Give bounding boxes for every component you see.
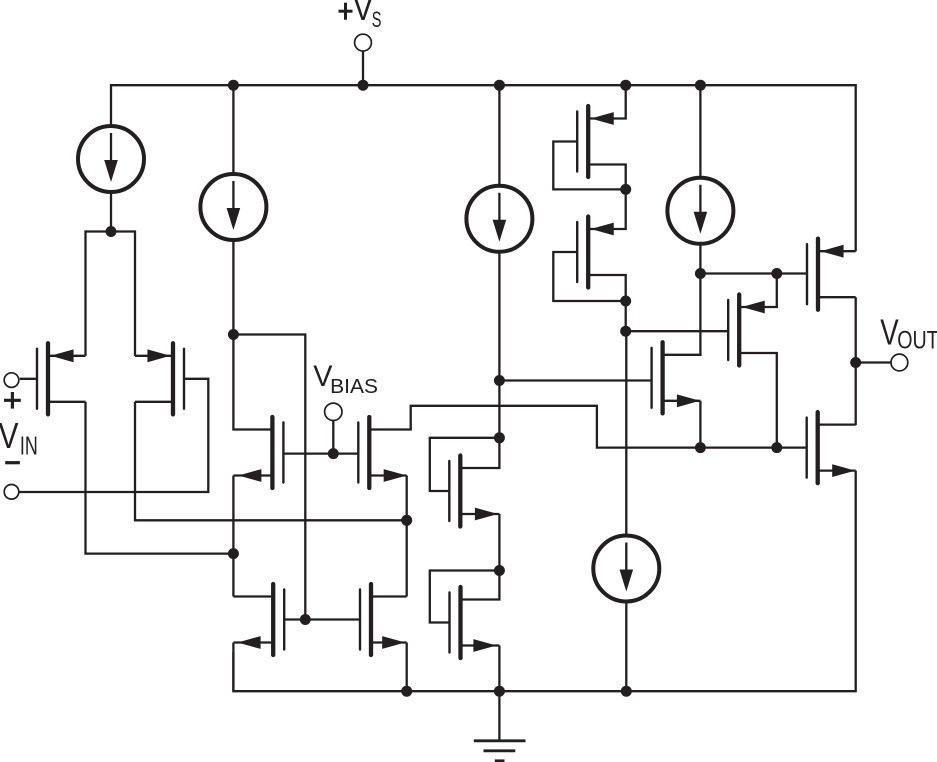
wire: node G to M13 gate — [499, 379, 651, 381]
node: M6/M7 junction — [494, 565, 505, 576]
wire: I3 to node G and M6 — [498, 252, 500, 438]
wire: M12 source lead — [739, 274, 777, 308]
wire: M6 drain lead — [460, 438, 499, 468]
svg-text:V: V — [0, 415, 19, 456]
node C: M2/M4/M5b junction — [401, 515, 412, 526]
node E: M9 drain junction — [620, 296, 631, 307]
wire: M5a source lead — [233, 641, 273, 643]
wire: M11 drain lead — [818, 296, 856, 298]
node: ground rail junction I5 — [621, 686, 632, 697]
current source I5 — [593, 536, 659, 602]
transistor M7 (diode NMOS lower) — [450, 587, 461, 658]
wire: VOUT stub — [856, 361, 892, 363]
wire: VBIAS stem — [332, 420, 334, 454]
wire: M13 source lead — [663, 400, 701, 402]
wire: I5 to ground rail — [625, 602, 627, 692]
node: tail junction — [106, 226, 117, 237]
wire: M6 source lead — [460, 513, 499, 515]
arrow: M3 drain (points left) — [238, 469, 261, 482]
wire: M2 source lead — [135, 355, 173, 357]
wire: tail to M2 source — [134, 230, 136, 355]
wire: M15 drain lead — [818, 423, 856, 425]
wire: node B to M5a drain — [232, 554, 234, 597]
svg-text:V: V — [353, 0, 374, 28]
transistor M5a (mirror NMOS left) — [273, 584, 284, 655]
current source I4 — [667, 178, 733, 244]
wire: M9 gate loop — [553, 252, 625, 301]
terminal +VS — [355, 34, 372, 85]
wire: M7 gate loop — [430, 571, 500, 623]
wire: I1 to tail node — [110, 192, 112, 232]
transistor M1 (input PMOS +) — [37, 343, 48, 414]
wire: M8 gate loop — [553, 142, 625, 190]
node: rail junction at +VS terminal — [358, 80, 369, 91]
node: rail junction at M8 drain — [620, 80, 631, 91]
terminal VIN+ — [4, 373, 19, 388]
wire: M5a drain lead — [233, 595, 273, 597]
label VOUT — [880, 312, 937, 355]
terminal VOUT — [891, 354, 908, 371]
wire: +VS top supply rail — [111, 85, 856, 251]
wire: node J to node K — [700, 272, 776, 274]
wire: M5b source to ground rail — [406, 643, 408, 692]
arrow: M5b source (points right) — [382, 636, 405, 649]
wire: M3 gate lead — [283, 452, 333, 454]
node K: M12 source node — [771, 268, 782, 279]
transistor M3 (cascode PMOS left) — [272, 417, 283, 488]
arrow: M5a source (points left) — [238, 636, 261, 649]
wire: M7 source lead — [461, 644, 500, 646]
wire: M7 source to ground rail — [498, 646, 500, 692]
node G: M13 gate node — [494, 375, 505, 386]
arrow: M12 source (points into bar) — [742, 301, 765, 314]
arrow: M15 source (points right) — [832, 464, 855, 477]
label +VS — [339, 0, 382, 32]
wire: M15 source lead — [818, 469, 856, 471]
wire: M13 source down to bus — [699, 401, 701, 448]
wire: M8 source lead — [588, 85, 626, 118]
wire: I2 to node A and M3 source — [233, 240, 272, 430]
svg-text:IN: IN — [20, 430, 38, 460]
transistor M5b (mirror NMOS right) — [360, 584, 371, 655]
terminal VIN- — [4, 485, 19, 500]
wire: M4 gate lead — [333, 452, 358, 454]
wire: inverting input to M2 gate — [19, 379, 208, 492]
wire: M5a source to ground rail — [232, 643, 234, 692]
current source I3 — [466, 186, 532, 252]
svg-text:S: S — [372, 7, 382, 32]
terminal VBIAS — [325, 403, 342, 420]
wire: M11 drain to VOUT node — [855, 297, 857, 425]
wire: M2 drain down to node C — [135, 402, 407, 521]
node A: mirror bias node — [228, 329, 239, 340]
wire: rail to I4 — [699, 85, 701, 178]
node: rail junction at CS4 — [695, 80, 706, 91]
node F: M12 gate node — [620, 326, 631, 337]
wire: differential pair tail — [86, 230, 136, 232]
wire: M5b drain lead — [371, 595, 407, 597]
label VBIAS — [313, 360, 378, 398]
arrow: M11 source (points into bar) — [821, 245, 844, 258]
transistor M13 (NMOS gain stage) — [652, 342, 663, 413]
transistor M8 (diode PMOS upper) — [577, 106, 588, 177]
arrow: M4 drain (points right) — [384, 469, 407, 482]
node B: M1/M3/M5a junction — [228, 548, 239, 559]
wire: M3 drain lead — [233, 474, 272, 476]
wire: rail to I3 — [498, 85, 500, 186]
transistor M11 (PMOS output driver) — [807, 239, 818, 310]
wire: node A to mirror gates — [233, 335, 305, 620]
label VIN — [0, 415, 38, 460]
svg-text:V: V — [880, 312, 898, 353]
svg-text:OUT: OUT — [897, 328, 937, 355]
transistor M4 (cascode PMOS right) — [358, 417, 369, 488]
wire: node F down to I5 — [625, 331, 627, 535]
wire: M2 drain lead — [135, 401, 173, 403]
transistor M15 (NMOS output driver) — [807, 412, 818, 483]
wire: M11 source lead — [818, 250, 856, 252]
wire: M4 source to W1 bus — [369, 406, 806, 448]
node: mirror gate junction — [300, 614, 311, 625]
node: M8 drain / M9 source — [620, 184, 631, 195]
transistor M9 (diode PMOS lower) — [577, 217, 588, 288]
arrow: M6 source (points right) — [475, 508, 498, 521]
node: rail junction at CS3 — [494, 80, 505, 91]
arrow: M13 source (points right) — [677, 394, 700, 407]
transistor M2 (input PMOS -) — [173, 343, 184, 414]
node M: bus junction M12 — [771, 442, 782, 453]
wire: ground rail — [233, 471, 855, 692]
wire: node E to node F — [625, 301, 627, 331]
node: VBIAS junction — [328, 448, 339, 459]
ground — [474, 691, 526, 761]
arrow: M8 source (points into bar) — [591, 112, 614, 125]
arrow: M1 source (points into bar) — [51, 349, 74, 362]
wire: M1 drain lead — [48, 401, 86, 403]
arrow: M7 source (points right) — [473, 639, 496, 652]
label + (noninverting input) — [4, 392, 21, 409]
transistor M12 (cascode PMOS output) — [728, 295, 739, 366]
current source I2 — [200, 174, 266, 240]
wire: I4 to node J and M13 drain — [663, 244, 701, 355]
wire: M4 drain lead — [369, 474, 406, 476]
current source I1 — [78, 126, 144, 192]
wire: M1 drain down to node B — [86, 402, 234, 554]
wire: M6 source down to M7 — [498, 514, 500, 571]
wire: M12 drain lead — [739, 353, 777, 448]
wire: M7 drain lead — [461, 571, 500, 600]
transistor M6 (diode NMOS upper) — [449, 456, 460, 527]
wire: M1 gate lead — [20, 378, 37, 380]
label - (inverting input) — [5, 461, 20, 464]
node: M6 drain-gate junction — [494, 432, 505, 443]
wire: M8 drain lead — [588, 165, 626, 190]
node L: bus junction M13 — [695, 442, 706, 453]
wire: node F to M12 gate — [626, 330, 729, 332]
arrow: M9 source (points into bar) — [591, 223, 614, 236]
arrow: M2 source (points into bar) — [147, 349, 170, 362]
node: VOUT junction — [850, 357, 861, 368]
wire: M1 source lead — [48, 355, 86, 357]
wire: rail to I2 — [232, 85, 234, 174]
wire: M5b source lead — [371, 641, 407, 643]
wire: node K to M11 gate — [777, 272, 807, 274]
wire: M6 gate loop — [430, 438, 500, 491]
wire: tail to M1 source — [84, 230, 86, 355]
node: ground rail junction M7 — [494, 686, 505, 697]
wire: M9 source lead — [588, 189, 626, 229]
wire: M4 drain down to M5b — [406, 476, 408, 597]
wire: M9 drain lead — [588, 275, 626, 301]
wire: M5a gate to M5b gate — [284, 618, 360, 620]
node: ground rail junction M5b — [401, 686, 412, 697]
wire: M3 drain down to node B — [232, 476, 234, 554]
node J: I4/M13/M12 node — [695, 268, 706, 279]
node: rail junction at CS2 — [228, 80, 239, 91]
svg-text:BIAS: BIAS — [330, 376, 378, 398]
